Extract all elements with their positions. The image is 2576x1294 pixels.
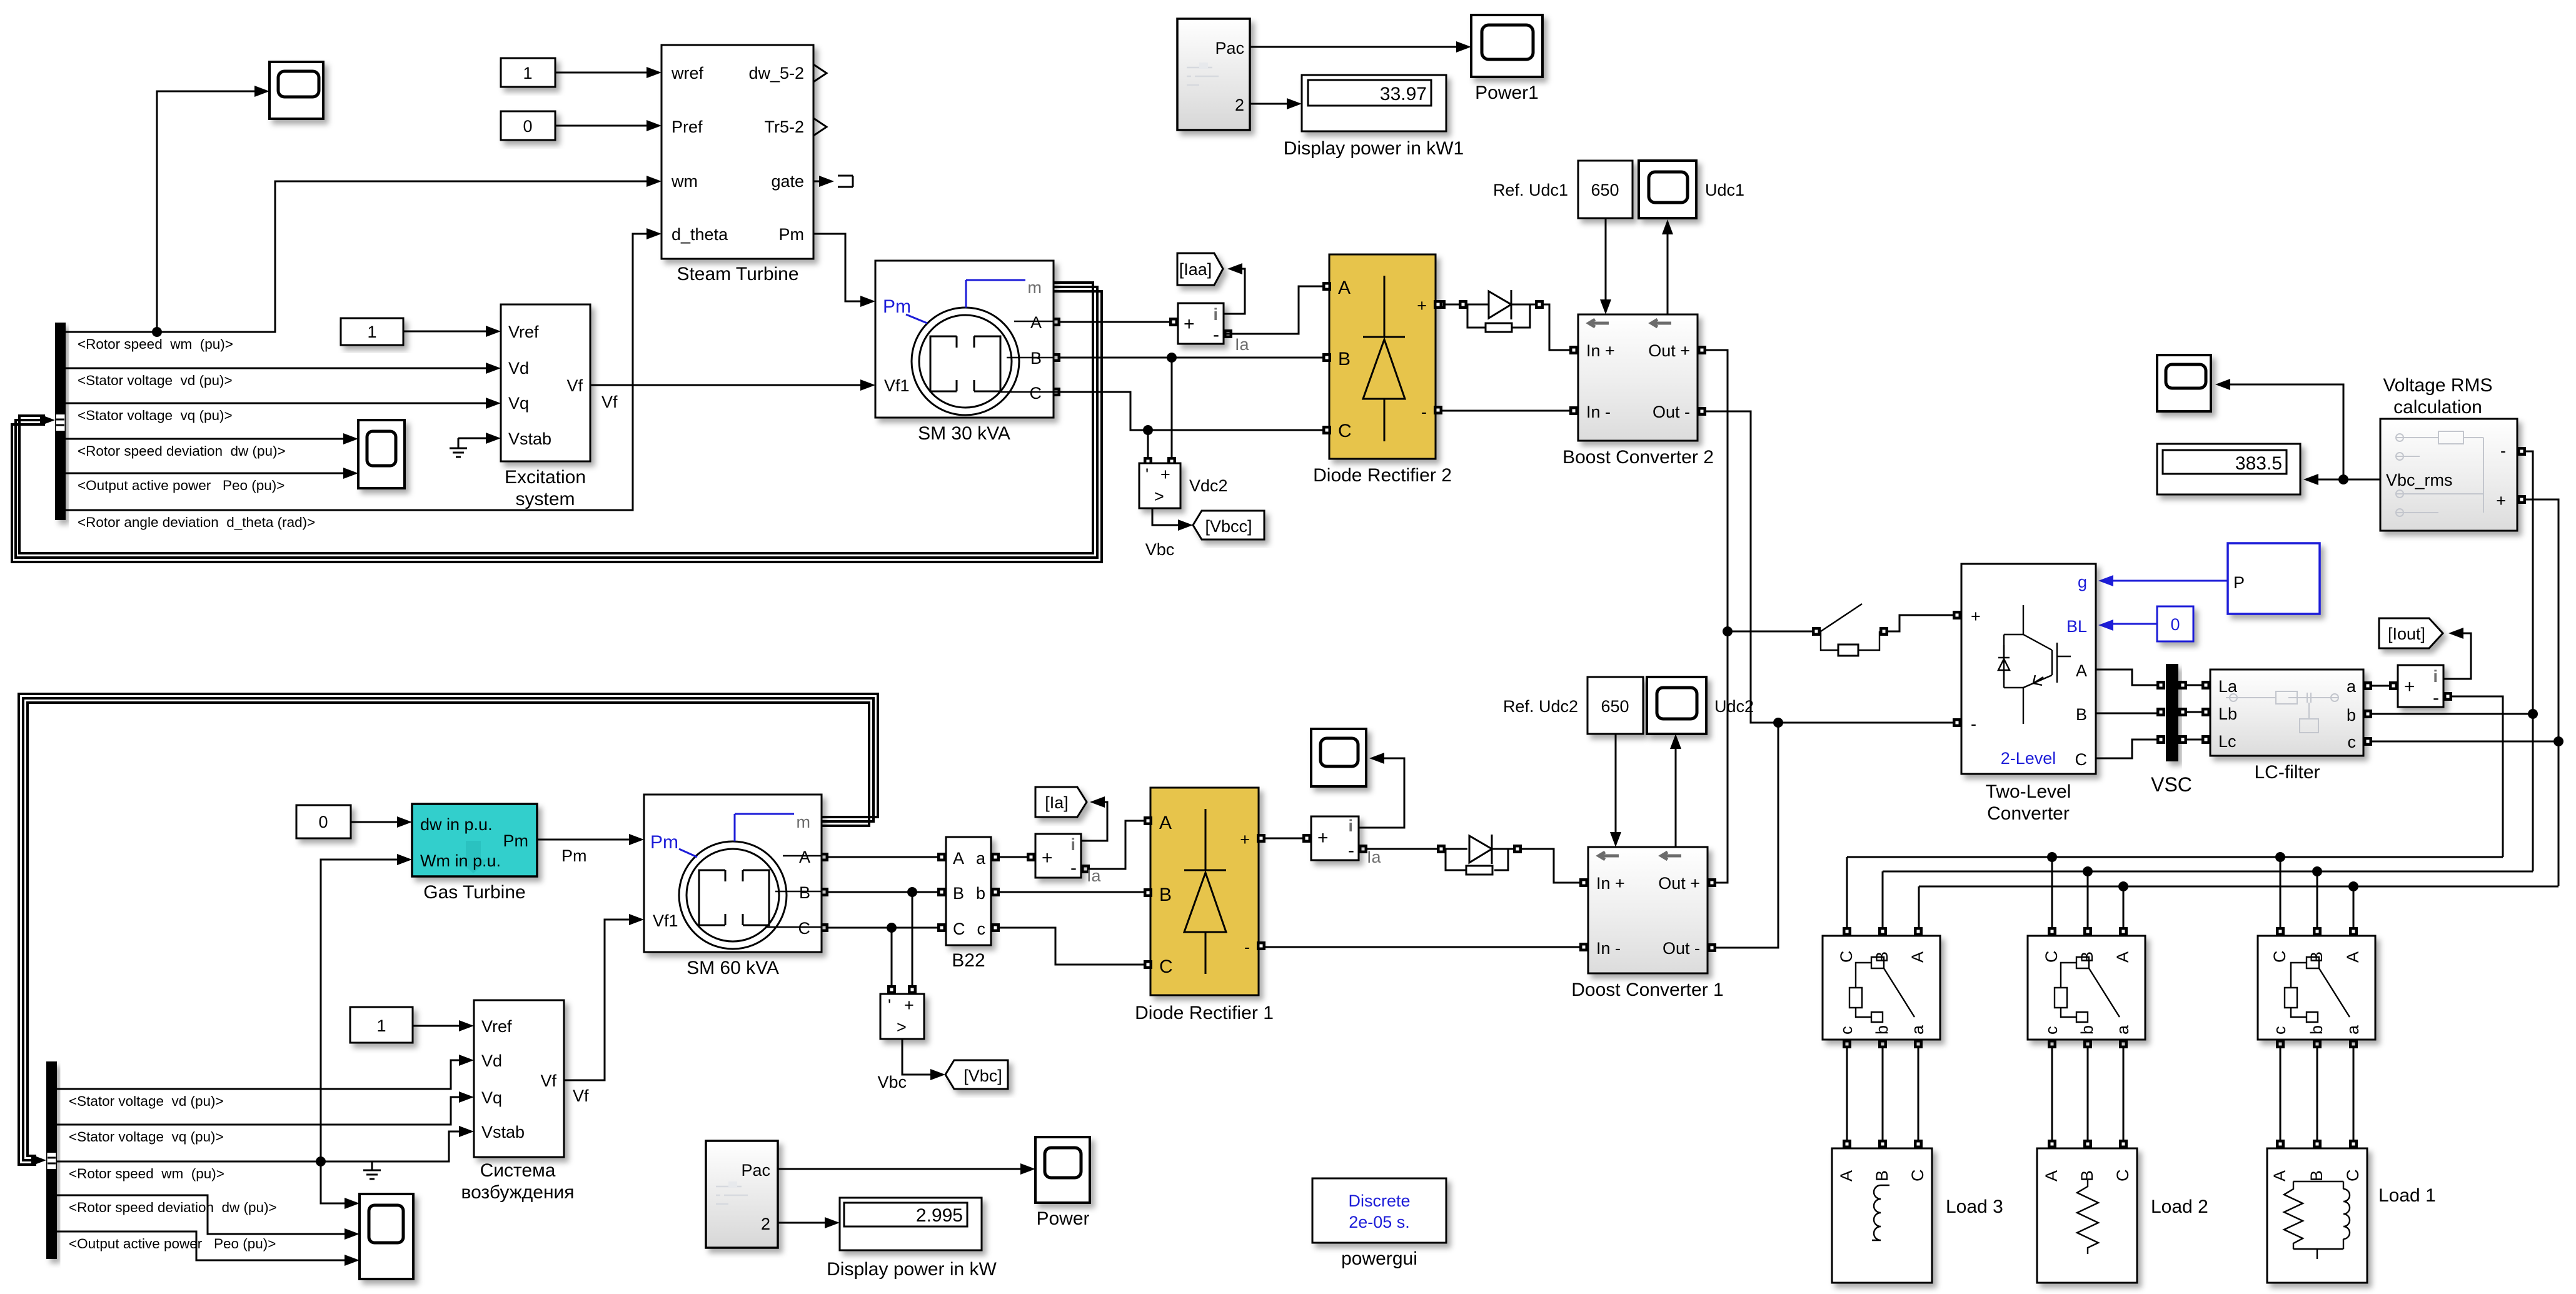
- svg-text:In +: In +: [1596, 874, 1625, 893]
- svg-text:>: >: [1154, 487, 1164, 506]
- svg-text:dw in p.u.: dw in p.u.: [420, 815, 493, 834]
- svg-text:Vd: Vd: [508, 359, 529, 378]
- svg-text:Power: Power: [1036, 1208, 1089, 1229]
- svg-text:Udc1: Udc1: [1705, 181, 1744, 199]
- svg-text:Vbc_rms: Vbc_rms: [2386, 471, 2453, 489]
- svg-text:A: A: [2113, 951, 2132, 963]
- svg-text:wref: wref: [671, 64, 704, 83]
- svg-text:+: +: [1317, 828, 1329, 848]
- svg-text:system: system: [515, 489, 575, 509]
- svg-text:Vstab: Vstab: [508, 429, 551, 448]
- svg-text:i: i: [1070, 835, 1075, 854]
- svg-text:<Rotor speed deviation dw (pu: <Rotor speed deviation dw (pu)>: [69, 1200, 277, 1215]
- svg-text:A: A: [2076, 661, 2087, 680]
- svg-text:Out +: Out +: [1658, 874, 1700, 893]
- svg-text:Voltage RMS: Voltage RMS: [2383, 375, 2492, 396]
- svg-text:<Output active power Peo (pu: <Output active power Peo (pu)>: [69, 1236, 276, 1251]
- svg-text:B: B: [1030, 349, 1042, 368]
- svg-text:Vdc2: Vdc2: [1189, 476, 1228, 495]
- svg-text:Load 2: Load 2: [2151, 1196, 2208, 1217]
- svg-text:[Iout]: [Iout]: [2388, 624, 2425, 643]
- svg-text:A: A: [2270, 1170, 2289, 1181]
- svg-text:383.5: 383.5: [2235, 453, 2282, 474]
- svg-text:SM 60 kVA: SM 60 kVA: [687, 958, 779, 978]
- svg-text:Out -: Out -: [1653, 403, 1690, 421]
- svg-text:Pm: Pm: [650, 832, 678, 853]
- svg-text:+: +: [1240, 830, 1250, 849]
- svg-text:Vf: Vf: [566, 376, 583, 395]
- svg-text:Discrete: Discrete: [1348, 1191, 1410, 1210]
- svg-text:Excitation: Excitation: [505, 467, 586, 488]
- svg-text:Display power in kW1: Display power in kW1: [1284, 138, 1464, 159]
- svg-text:650: 650: [1591, 181, 1619, 199]
- svg-text:a: a: [1908, 1025, 1927, 1035]
- svg-text:2: 2: [761, 1215, 770, 1233]
- svg-text:Vbc: Vbc: [877, 1073, 907, 1091]
- svg-text:Converter: Converter: [1987, 803, 2070, 824]
- svg-text:<Stator voltage vd (pu)>: <Stator voltage vd (pu)>: [69, 1093, 224, 1109]
- svg-text:C: C: [2042, 951, 2061, 963]
- svg-text:Out -: Out -: [1663, 939, 1700, 958]
- svg-text:Ia: Ia: [1235, 335, 1250, 354]
- svg-text:Vf1: Vf1: [884, 376, 910, 395]
- svg-text:Vbc: Vbc: [1145, 540, 1175, 559]
- svg-text:Wm in p.u.: Wm in p.u.: [420, 851, 501, 870]
- svg-text:+: +: [1417, 296, 1427, 315]
- svg-text:1: 1: [523, 64, 532, 83]
- svg-text:g: g: [2078, 573, 2087, 591]
- svg-text:0: 0: [318, 813, 328, 831]
- svg-text:+: +: [904, 996, 914, 1015]
- svg-text:La: La: [2218, 677, 2238, 696]
- svg-text:0: 0: [2170, 615, 2180, 634]
- svg-text:Power1: Power1: [1475, 83, 1539, 103]
- svg-text:<Rotor angle deviation d_thet: <Rotor angle deviation d_theta (rad)>: [78, 514, 315, 530]
- svg-text:Boost Converter 2: Boost Converter 2: [1562, 447, 1714, 468]
- svg-text:i: i: [1213, 305, 1218, 324]
- svg-text:2: 2: [1235, 96, 1244, 114]
- svg-text:2-Level: 2-Level: [2001, 749, 2056, 768]
- svg-text:<Stator voltage vd (pu)>: <Stator voltage vd (pu)>: [78, 373, 233, 388]
- svg-text:dw_5-2: dw_5-2: [748, 64, 804, 83]
- svg-text:<Stator voltage vq (pu)>: <Stator voltage vq (pu)>: [69, 1129, 224, 1145]
- svg-text:': ': [888, 996, 891, 1015]
- svg-text:Ia: Ia: [1087, 866, 1102, 885]
- svg-text:C: C: [2113, 1170, 2132, 1182]
- svg-text:Vf: Vf: [601, 393, 618, 411]
- svg-text:<Rotor speed deviation dw (pu: <Rotor speed deviation dw (pu)>: [78, 443, 286, 459]
- svg-text:A: A: [2042, 1170, 2061, 1181]
- svg-text:Vf: Vf: [573, 1086, 589, 1105]
- svg-text:Vf1: Vf1: [653, 911, 678, 930]
- svg-text:A: A: [1837, 1170, 1856, 1181]
- svg-text:Lc: Lc: [2218, 732, 2236, 751]
- svg-text:-: -: [1213, 324, 1219, 345]
- svg-text:Ref. Udc2: Ref. Udc2: [1503, 697, 1578, 716]
- svg-text:Pref: Pref: [672, 118, 703, 136]
- svg-text:0: 0: [523, 117, 532, 136]
- svg-text:calculation: calculation: [2393, 397, 2482, 418]
- svg-text:m: m: [1028, 278, 1042, 297]
- svg-text:<Rotor speed wm (pu)>: <Rotor speed wm (pu)>: [69, 1166, 224, 1181]
- svg-text:i: i: [2433, 667, 2438, 686]
- svg-text:C: C: [953, 920, 965, 938]
- svg-text:B: B: [799, 883, 810, 902]
- svg-text:Gas Turbine: Gas Turbine: [423, 882, 525, 903]
- svg-text:Pm: Pm: [561, 846, 587, 865]
- svg-text:C: C: [1159, 956, 1173, 977]
- svg-text:C: C: [2075, 750, 2088, 769]
- svg-text:A: A: [1030, 313, 1042, 332]
- svg-text:+: +: [1184, 314, 1195, 334]
- svg-text:<Rotor speed wm (pu)>: <Rotor speed wm (pu)>: [78, 336, 233, 352]
- svg-text:C: C: [1338, 421, 1352, 441]
- svg-text:Udc2: Udc2: [1714, 697, 1754, 716]
- svg-text:Vref: Vref: [481, 1017, 512, 1036]
- svg-text:B: B: [2307, 1170, 2326, 1181]
- svg-text:A: A: [1908, 951, 1927, 963]
- svg-text:Ia: Ia: [1367, 848, 1382, 866]
- svg-text:+: +: [1160, 465, 1170, 484]
- svg-text:A: A: [953, 849, 964, 868]
- svg-text:B: B: [2078, 1170, 2096, 1181]
- svg-text:+: +: [1042, 848, 1053, 868]
- svg-text:Load 3: Load 3: [1946, 1196, 2003, 1217]
- svg-text:-: -: [1421, 403, 1427, 421]
- svg-text:[Vbcc]: [Vbcc]: [1205, 517, 1252, 536]
- svg-text:b: b: [2307, 1025, 2326, 1035]
- svg-text:C: C: [2343, 1170, 2362, 1182]
- svg-text:Ref. Udc1: Ref. Udc1: [1493, 181, 1568, 199]
- svg-text:c: c: [977, 920, 986, 938]
- svg-text:BL: BL: [2066, 617, 2087, 636]
- svg-text:wm: wm: [671, 172, 698, 191]
- svg-text:<Output active power Peo (pu: <Output active power Peo (pu)>: [78, 478, 284, 493]
- svg-text:2e-05 s.: 2e-05 s.: [1349, 1213, 1410, 1231]
- svg-text:c: c: [2042, 1026, 2061, 1035]
- svg-text:SM 30 kVA: SM 30 kVA: [918, 423, 1010, 444]
- svg-text:B: B: [1159, 885, 1172, 905]
- svg-text:>: >: [897, 1018, 907, 1036]
- svg-text:Steam Turbine: Steam Turbine: [677, 264, 798, 284]
- svg-text:Out +: Out +: [1648, 341, 1690, 360]
- svg-text:C: C: [1837, 951, 1856, 963]
- svg-text:B: B: [1338, 349, 1351, 369]
- svg-text:b: b: [2347, 706, 2356, 725]
- svg-text:a: a: [2113, 1025, 2132, 1035]
- svg-text:Pac: Pac: [741, 1161, 770, 1180]
- svg-text:gate: gate: [771, 172, 804, 191]
- svg-text:b: b: [976, 884, 985, 903]
- svg-text:LC-filter: LC-filter: [2254, 762, 2320, 783]
- svg-text:-: -: [1244, 938, 1250, 956]
- svg-text:Pm: Pm: [779, 225, 805, 244]
- svg-text:-: -: [2500, 441, 2506, 460]
- svg-text:возбуждения: возбуждения: [461, 1182, 574, 1203]
- svg-text:Vq: Vq: [508, 394, 529, 413]
- svg-text:2.995: 2.995: [916, 1205, 963, 1226]
- svg-text:[Ia]: [Ia]: [1045, 793, 1069, 812]
- svg-text:b: b: [1873, 1025, 1891, 1035]
- svg-text:A: A: [799, 848, 810, 866]
- svg-text:1: 1: [367, 323, 376, 341]
- svg-text:c: c: [2270, 1026, 2289, 1035]
- svg-text:Pm: Pm: [503, 831, 529, 850]
- svg-text:d_theta: d_theta: [672, 225, 728, 244]
- svg-text:Vref: Vref: [508, 323, 539, 341]
- svg-text:-: -: [2433, 688, 2439, 708]
- svg-text:In -: In -: [1596, 939, 1621, 958]
- svg-text:-: -: [1070, 858, 1077, 878]
- svg-text:a: a: [976, 849, 986, 868]
- svg-text:Display power in kW: Display power in kW: [827, 1259, 997, 1280]
- svg-text:[Iaa]: [Iaa]: [1179, 260, 1212, 279]
- svg-text:i: i: [1348, 816, 1353, 835]
- svg-text:Vd: Vd: [481, 1051, 502, 1070]
- svg-text:Pm: Pm: [883, 296, 911, 317]
- svg-text:Vstab: Vstab: [481, 1123, 525, 1141]
- svg-text:Lb: Lb: [2218, 705, 2237, 723]
- svg-text:a: a: [2347, 677, 2357, 696]
- svg-text:C: C: [1030, 384, 1042, 403]
- svg-text:Diode Rectifier 2: Diode Rectifier 2: [1313, 465, 1452, 486]
- svg-text:A: A: [1338, 278, 1351, 298]
- svg-text:C: C: [1908, 1170, 1927, 1182]
- svg-text:a: a: [2343, 1025, 2362, 1035]
- svg-text:Doost Converter 1: Doost Converter 1: [1571, 980, 1723, 1000]
- svg-text:c: c: [1837, 1026, 1856, 1035]
- svg-text:650: 650: [1601, 697, 1629, 716]
- svg-text:<Stator voltage vq (pu)>: <Stator voltage vq (pu)>: [78, 408, 233, 423]
- svg-text:+: +: [1971, 607, 1981, 626]
- svg-text:B: B: [953, 884, 964, 903]
- svg-text:B: B: [1873, 1170, 1891, 1181]
- svg-text:C: C: [2270, 951, 2289, 963]
- svg-text:In +: In +: [1586, 341, 1615, 360]
- svg-text:Two-Level: Two-Level: [1986, 781, 2071, 802]
- svg-text:Система: Система: [480, 1160, 556, 1181]
- svg-text:powergui: powergui: [1341, 1248, 1417, 1269]
- svg-text:b: b: [2078, 1025, 2096, 1035]
- svg-text:A: A: [1159, 813, 1172, 833]
- svg-text:33.97: 33.97: [1380, 84, 1427, 104]
- svg-text:Vq: Vq: [481, 1088, 502, 1107]
- svg-text:m: m: [797, 813, 811, 831]
- svg-text:Pac: Pac: [1215, 39, 1244, 58]
- svg-text:A: A: [2343, 951, 2362, 963]
- svg-text:B22: B22: [952, 950, 985, 971]
- svg-text:C: C: [798, 919, 811, 938]
- svg-text:': ': [1145, 465, 1149, 484]
- svg-text:+: +: [2496, 491, 2506, 510]
- svg-text:1: 1: [376, 1016, 386, 1035]
- svg-text:P: P: [2233, 573, 2245, 592]
- svg-text:In -: In -: [1586, 403, 1611, 421]
- svg-text:-: -: [1971, 715, 1976, 733]
- svg-text:+: +: [2404, 676, 2415, 697]
- svg-text:[Vbc]: [Vbc]: [963, 1066, 1002, 1085]
- svg-text:c: c: [2348, 733, 2357, 751]
- svg-text:B: B: [2076, 705, 2087, 724]
- svg-text:-: -: [1348, 840, 1354, 861]
- svg-text:Vf: Vf: [540, 1071, 556, 1090]
- svg-text:Load 1: Load 1: [2378, 1185, 2436, 1206]
- svg-text:Tr5-2: Tr5-2: [764, 118, 804, 136]
- svg-text:VSC: VSC: [2151, 773, 2192, 796]
- svg-text:Diode Rectifier 1: Diode Rectifier 1: [1135, 1003, 1274, 1023]
